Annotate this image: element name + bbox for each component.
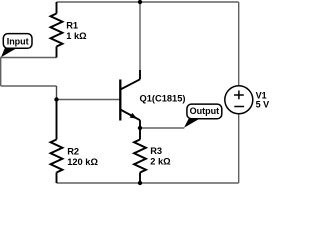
svg-text:R1: R1 [66, 21, 78, 31]
transistor Q1 [120, 70, 140, 128]
svg-text:1 kΩ: 1 kΩ [66, 31, 87, 41]
wire left edge vertical [0, 58, 2, 87]
svg-text:2 kΩ: 2 kΩ [150, 157, 171, 167]
svg-text:R2: R2 [67, 146, 79, 156]
svg-text:120 kΩ: 120 kΩ [67, 157, 98, 167]
svg-text:Output: Output [190, 106, 220, 116]
resistor R1 [51, 2, 63, 58]
svg-text:Q1(C1815): Q1(C1815) [140, 93, 186, 103]
node base junction [54, 97, 58, 101]
svg-text:5 V: 5 V [256, 99, 270, 109]
Output callout [184, 104, 222, 128]
resistor R2 [51, 100, 63, 184]
node bottom junction [138, 181, 142, 185]
transistor Q1 emitter arrow [130, 113, 138, 119]
node emitter junction [138, 126, 142, 130]
wire base [57, 99, 121, 101]
resistor R3 [134, 128, 146, 183]
node top junction [138, 0, 142, 4]
wire bottom rail [57, 182, 239, 184]
wire V1 bottom lead [238, 114, 240, 183]
wire output [140, 127, 184, 129]
svg-text:R3: R3 [150, 146, 162, 156]
source V1 [225, 86, 253, 114]
wire input horizontal [0, 57, 57, 59]
Input callout [1, 34, 32, 58]
wire top rail from R1 to V1 [57, 1, 239, 3]
wire jog horizontal [1, 85, 57, 87]
wire collector riser [139, 2, 141, 70]
svg-text:Input: Input [7, 36, 29, 46]
wire jog vertical to base node [56, 86, 58, 100]
wire V1 top lead [238, 2, 240, 86]
